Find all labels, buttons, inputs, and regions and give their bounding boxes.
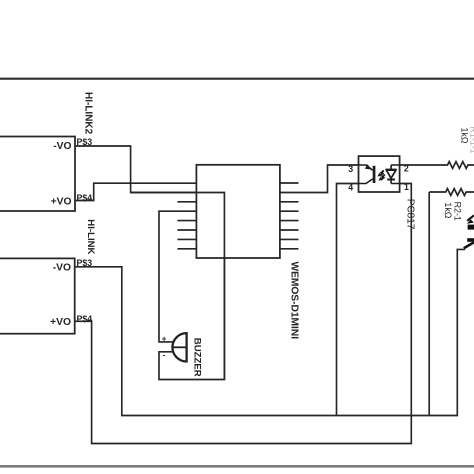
svg-text:R1-1-1: R1-1-1 — [469, 127, 474, 154]
svg-text:HI-LINK: HI-LINK — [85, 219, 96, 254]
svg-text:+VO: +VO — [51, 197, 72, 208]
svg-text:BUZZER: BUZZER — [191, 338, 202, 377]
svg-text:PC817: PC817 — [404, 199, 415, 230]
svg-text:1: 1 — [404, 182, 409, 192]
svg-text:-VO: -VO — [53, 262, 71, 273]
svg-text:P$4: P$4 — [77, 193, 93, 203]
svg-text:P$3: P$3 — [77, 137, 93, 147]
svg-text:+: + — [162, 335, 167, 344]
svg-text:4: 4 — [348, 182, 353, 192]
svg-text:+VO: +VO — [50, 317, 71, 328]
svg-text:1kΩ: 1kΩ — [443, 202, 453, 218]
svg-text:1kΩ: 1kΩ — [460, 128, 470, 144]
svg-text:-VO: -VO — [53, 141, 71, 152]
svg-text:2: 2 — [404, 163, 409, 173]
svg-text:P$3: P$3 — [77, 258, 93, 268]
svg-text:3: 3 — [348, 164, 353, 174]
svg-text:-: - — [163, 351, 166, 360]
svg-text:WEMOS-D1MINI: WEMOS-D1MINI — [289, 262, 300, 340]
svg-text:P$4: P$4 — [77, 314, 93, 324]
svg-text:HI-LINK2: HI-LINK2 — [83, 92, 94, 135]
